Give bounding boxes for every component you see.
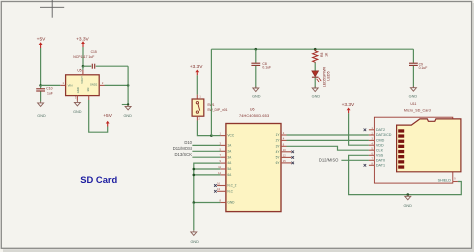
pin 5 CLK [369,148,384,153]
wire 1Y to DAT3 [287,134,369,136]
pin 9 4A [220,159,233,165]
svg-text:+3.3V: +3.3V [342,102,355,108]
svg-text:DAT3/CD: DAT3/CD [376,133,392,137]
power flag +3.3V at SW1 [190,64,203,75]
junction gnd [127,103,129,105]
power flag +5V to EN [103,113,112,127]
junction R8 [314,48,317,51]
pin 11 5A [218,165,232,171]
wire GND pin 8 [194,202,221,204]
svg-text:VCC: VCC [227,134,234,138]
svg-text:D11/MOSI: D11/MOSI [173,146,192,151]
ground SD [403,195,412,208]
svg-text:74HC4050D.653: 74HC4050D.653 [239,114,269,118]
pin 9 SHIELD [438,178,458,183]
svg-text:Micro_SD_Card: Micro_SD_Card [404,108,431,112]
wire rail to C9 [412,49,414,63]
pin 15 6Y [276,159,294,165]
wire D10 to 1A [192,144,220,146]
wire node to C15 [83,65,91,67]
svg-text:GND: GND [76,87,80,93]
pin 4 VDD [369,143,384,148]
svg-text:GND: GND [252,94,261,98]
svg-text:0.1uF: 0.1uF [419,66,428,70]
wire 5A [194,168,221,170]
pin 6 VSS [369,153,384,158]
svg-text:CMD: CMD [376,139,385,143]
svg-text:U11: U11 [410,102,416,106]
svg-text:VIN: VIN [68,84,73,88]
power flag +5V input [37,36,46,48]
svg-text:GND: GND [73,110,82,114]
ground C9 [409,86,418,98]
capacitor C10 [36,85,53,101]
pin 8 DAT1 [364,163,385,168]
svg-text:GND: GND [37,114,46,118]
svg-text:DAT2: DAT2 [376,128,385,132]
wire R8 to LED [314,63,316,71]
capacitor C9 [409,62,427,87]
switch SW1 [192,95,228,121]
wire VCC node to U6 [211,135,220,137]
svg-text:+5V: +5V [103,113,112,119]
junction VIN node [39,84,42,87]
wire EN loop to +5V [89,100,108,132]
junction VCC node [210,134,213,137]
connector U11 Micro SD card [364,102,461,183]
svg-text:C10: C10 [46,87,52,91]
wire LED to GND [314,78,316,88]
svg-text:+3.3V: +3.3V [76,36,89,42]
pin 1 VCC [220,132,235,138]
wire VCC riser [210,49,212,135]
svg-text:GND: GND [123,114,132,118]
ground LED [312,86,321,98]
ground regulator rail [123,105,132,118]
svg-text:SD Card: SD Card [80,174,117,185]
wire D11 to 2A [192,150,220,152]
wire GND rail vertical [127,66,129,104]
svg-text:1uF: 1uF [47,91,53,95]
resistor R8 [313,49,329,63]
svg-text:GND: GND [312,95,321,99]
svg-text:VSS: VSS [376,153,384,157]
svg-text:CLK: CLK [376,148,384,152]
wire node to VOUT pin [82,66,84,70]
pin 3 1A [220,141,233,147]
svg-text:C15: C15 [91,50,97,54]
pin 6 3Y [276,142,287,148]
wire MISO to DAT0 [341,159,369,161]
wire +3.3V down [82,47,84,66]
svg-text:U6: U6 [250,108,255,112]
svg-text:DAT0: DAT0 [376,158,385,162]
svg-text:GND: GND [403,204,412,208]
wire +5V down to VIN node [40,48,42,85]
wire 4A to gnd bus [194,163,221,202]
svg-text:+3.3V: +3.3V [190,64,203,70]
pin 2 1Y [276,131,287,137]
svg-text:LED5: LED5 [327,71,331,80]
wire VDD [349,113,369,145]
svg-text:1K: 1K [324,52,328,57]
svg-text:DAT1: DAT1 [376,163,385,167]
svg-text:GND: GND [227,201,235,205]
pin 10 4Y [276,148,294,154]
ground U6 [190,230,199,244]
junction 5A [193,168,196,171]
ground C8 [252,86,261,98]
pin 7 DAT0 [369,158,385,163]
pin 1 DAT2 [364,127,385,132]
LED LED5 [312,67,331,88]
svg-text:N.C: N.C [227,189,233,193]
wire +3.3V to SW1 [196,75,198,94]
wire C15 to GND rail [96,65,128,67]
pin 4 2Y [276,136,287,142]
ground U5 pin3 [73,101,82,114]
svg-text:GND: GND [409,94,418,98]
svg-text:SHIELD: SHIELD [438,178,452,182]
junction gnd bus [193,201,196,204]
pin 3 CMD [369,138,385,143]
pin 13 N.C [214,187,233,193]
svg-text:VDD: VDD [376,143,384,147]
wire VSS to shield/gnd [349,155,462,194]
wire 3.3V rail top [211,48,413,50]
capacitor C15 [73,50,97,69]
wire 3Y to CLK [287,146,369,150]
svg-text:0.1uF: 0.1uF [262,66,271,70]
svg-text:+5V: +5V [37,36,46,42]
pin 2 DAT3/CD [369,132,392,137]
wire 2Y to CMD [287,139,369,141]
junction +3.3V node [82,65,85,68]
pin 7 3A [220,153,233,159]
pin 16 N.C_2 [214,181,237,187]
svg-text:U5: U5 [77,69,81,73]
pin 14 6A [218,171,232,177]
junction C8 [255,48,258,51]
svg-text:SW_DIP_x01: SW_DIP_x01 [207,108,227,112]
wire VIN node to U5 pin 1 [41,84,61,86]
wire U5 pin2 to GND rail [105,84,129,86]
svg-text:GND: GND [190,240,199,244]
pin 8 GND [220,199,236,205]
wire D13 to 3A [192,156,220,158]
svg-text:VOUT: VOUT [80,76,84,84]
svg-text:N.C_2: N.C_2 [227,184,236,188]
svg-text:EN: EN [86,88,90,92]
IC U6 74HC4050 [214,108,294,212]
junction 6A [193,174,196,177]
power flag +3.3V at SD [342,102,355,113]
svg-text:D13/SCK: D13/SCK [175,152,193,157]
power flag +3.3V regulator output [76,36,89,47]
regulator U5 [60,69,104,101]
ground C10 [37,101,46,118]
junction SD gnd [407,193,410,196]
pin 12 5Y [276,153,294,159]
junction pin2/GND [127,84,130,87]
wire gnd bus down [193,203,195,231]
wire SW1 to VCC node [197,121,211,136]
wire 6A [194,174,221,176]
wire tick at gnd [122,104,128,106]
svg-text:D10: D10 [184,140,192,145]
svg-text:NCP1117 1uF: NCP1117 1uF [73,55,94,59]
svg-text:GND2: GND2 [90,82,98,86]
capacitor C8 [251,49,271,87]
svg-text:D12/MISO: D12/MISO [319,158,339,163]
pin 5 2A [220,147,233,153]
